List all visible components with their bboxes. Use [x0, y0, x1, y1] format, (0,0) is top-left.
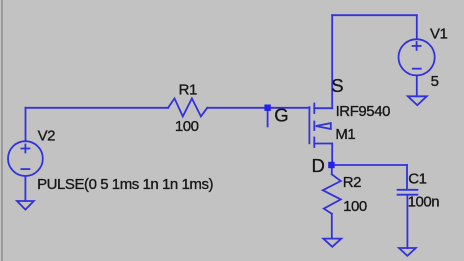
- svg-text:S: S: [331, 75, 343, 96]
- transistor M1 pmos body: [309, 104, 332, 148]
- ground below C1: [399, 248, 416, 256]
- wire V2 bottom to ground: [24, 176, 26, 201]
- ground below R2: [323, 239, 341, 247]
- svg-text:R1: R1: [179, 81, 197, 98]
- voltage source V2: [8, 141, 43, 176]
- wire C1 to ground: [406, 196, 408, 248]
- ground below V1: [408, 96, 427, 105]
- svg-text:100n: 100n: [408, 194, 440, 211]
- svg-text:100: 100: [175, 118, 199, 135]
- capacitor C1: [398, 190, 418, 195]
- svg-text:5: 5: [431, 73, 439, 90]
- node G stem: [267, 111, 269, 127]
- window edge line: [1, 0, 3, 261]
- wire source up to top rail: [331, 15, 333, 108]
- node G junction square: [264, 105, 270, 111]
- svg-text:D: D: [312, 155, 325, 176]
- svg-text:M1: M1: [335, 126, 355, 143]
- ground below V2: [17, 201, 34, 210]
- svg-text:C1: C1: [408, 170, 426, 187]
- wire R2 to ground: [331, 214, 333, 239]
- wire R1 to gate: [207, 107, 309, 109]
- wire top rail: [332, 14, 417, 16]
- voltage source V1: [399, 39, 435, 75]
- svg-text:IRF9540: IRF9540: [336, 103, 390, 120]
- svg-text:G: G: [274, 105, 288, 126]
- wire top rail down to V1: [416, 15, 418, 39]
- svg-text:V1: V1: [430, 26, 448, 43]
- wire node D down to R2: [331, 165, 333, 174]
- svg-text:R2: R2: [343, 174, 361, 191]
- node D junction square: [328, 162, 334, 168]
- svg-text:100: 100: [343, 198, 367, 215]
- wire V1 bottom to ground: [416, 76, 418, 97]
- svg-text:V2: V2: [38, 128, 56, 145]
- wire corner down to C1: [406, 165, 408, 189]
- wire drain down to node D: [331, 144, 333, 166]
- svg-text:PULSE(0 5 1ms 1n 1n 1ms): PULSE(0 5 1ms 1n 1n 1ms): [37, 176, 213, 193]
- wire V2 top to main rail: [25, 108, 27, 141]
- resistor R2: [323, 174, 341, 214]
- wire node D to C1 corner: [332, 164, 407, 166]
- resistor R1: [168, 98, 207, 116]
- wire main horizontal left of R1: [26, 107, 169, 109]
